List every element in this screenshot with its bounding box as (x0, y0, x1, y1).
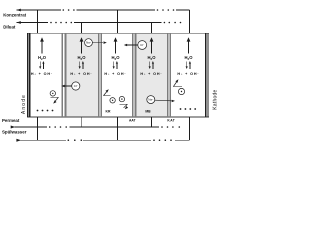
svg-text:AAT: AAT (129, 118, 136, 122)
svg-text:Diluat: Diluat (3, 25, 16, 30)
svg-text:H+ + OH−: H+ + OH− (140, 72, 162, 76)
svg-text:H+ + OH−: H+ + OH− (177, 72, 199, 76)
svg-text:Kathode: Kathode (212, 89, 218, 109)
svg-text:H2O: H2O (38, 55, 47, 61)
svg-text:Konzentrat: Konzentrat (3, 13, 26, 18)
svg-text:H2O: H2O (112, 55, 121, 61)
svg-text:MB: MB (145, 109, 151, 113)
svg-text:Permeat: Permeat (2, 118, 20, 123)
svg-text:KAT: KAT (167, 118, 175, 122)
svg-text:H+ + OH−: H+ + OH− (70, 72, 92, 76)
svg-text:H+ + OH−: H+ + OH− (31, 72, 53, 76)
svg-text:H+ + OH−: H+ + OH− (104, 72, 126, 76)
svg-text:H2O: H2O (78, 55, 87, 61)
svg-text:KR: KR (106, 109, 111, 113)
svg-text:Anode: Anode (21, 94, 27, 114)
svg-text:Spülwasser: Spülwasser (2, 130, 27, 135)
svg-text:H2O: H2O (185, 55, 194, 61)
svg-text:H2O: H2O (148, 55, 157, 61)
